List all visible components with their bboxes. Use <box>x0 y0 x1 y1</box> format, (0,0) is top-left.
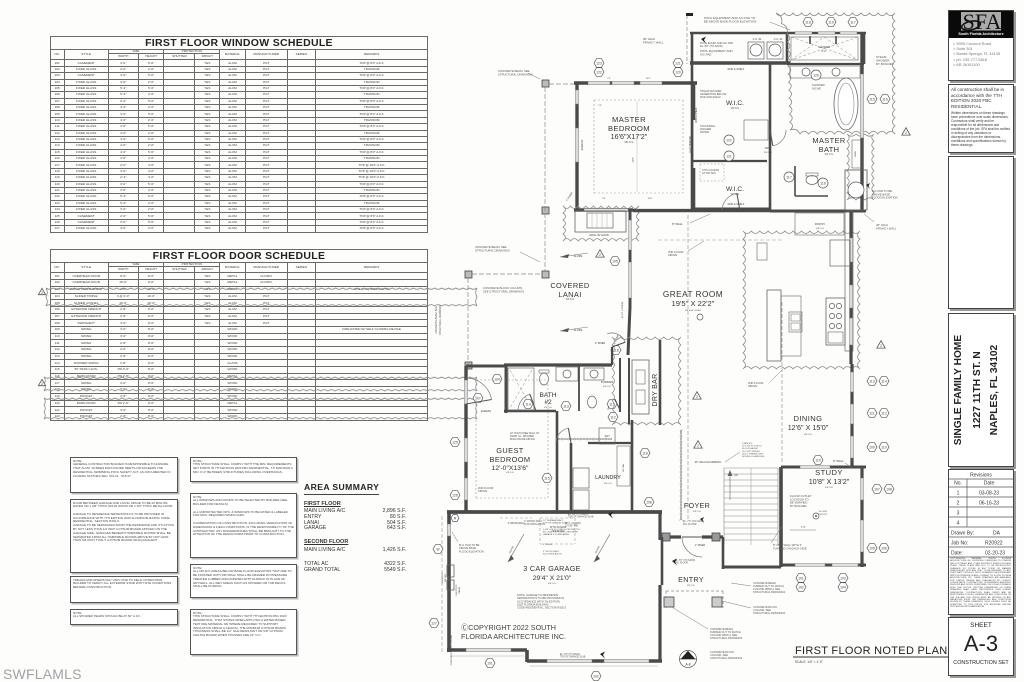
svg-text:VIF O.S.: VIF O.S. <box>764 152 773 154</box>
slope arrows <box>560 253 588 257</box>
svg-text:VIF O.S.: VIF O.S. <box>804 434 813 436</box>
svg-text:105: 105 <box>869 546 875 550</box>
svg-text:VIF O.S.: VIF O.S. <box>604 483 613 485</box>
address lines <box>949 38 1013 67</box>
study dim line <box>790 529 816 531</box>
electrical flag entry <box>672 559 677 566</box>
svg-text:COVERED: COVERED <box>550 281 589 290</box>
general notes boxes <box>70 457 178 493</box>
svg-text:FLOOD ELEVATION: FLOOD ELEVATION <box>459 549 484 553</box>
svg-text:VIF O.S.: VIF O.S. <box>506 472 515 474</box>
svg-text:STAIR KIT:: STAIR KIT: <box>742 442 753 445</box>
svg-text:108: 108 <box>646 500 652 504</box>
svg-text:121: 121 <box>726 154 732 158</box>
stair treads <box>724 467 778 469</box>
svg-text:114: 114 <box>881 379 887 383</box>
svg-text:101: 101 <box>487 661 493 665</box>
svg-text:D/4 CAB: D/4 CAB <box>622 463 625 471</box>
svg-text:Date:: Date: <box>951 551 963 557</box>
svg-text:ABOVE: ABOVE <box>748 384 757 388</box>
svg-text:10'8" X 13'2": 10'8" X 13'2" <box>809 477 850 486</box>
svg-text:12'6" X 15'0": 12'6" X 15'0" <box>788 423 829 432</box>
svg-text:ROD & SHELF: ROD & SHELF <box>728 203 745 206</box>
svg-text:3'4": 3'4" <box>602 198 606 200</box>
svg-text:7'6": 7'6" <box>607 78 611 80</box>
svg-text:DA: DA <box>993 531 1001 537</box>
svg-text:108: 108 <box>886 487 892 491</box>
svg-text:UP: UP <box>734 473 738 477</box>
stair up arrow <box>729 474 731 500</box>
revision cloud door schedule row 103 <box>46 288 477 306</box>
title block: empty seal panel <box>948 156 1014 309</box>
master bedroom south wall <box>574 208 633 211</box>
entry walls and columns <box>662 535 681 538</box>
svg-text:ELECTRIC: ELECTRIC <box>456 584 458 595</box>
svg-text:22"X36" MIN: 22"X36" MIN <box>565 526 578 528</box>
svg-text:22"X36" MIN: 22"X36" MIN <box>702 172 716 175</box>
riser door arc dry bar <box>607 333 625 342</box>
svg-text:1" RISER: 1" RISER <box>695 544 705 547</box>
svg-text:SCALE: 1/4" = 1'-0": SCALE: 1/4" = 1'-0" <box>795 660 823 664</box>
shower hex tags 118 119 117 <box>803 18 813 27</box>
svg-text:BEDROOM: BEDROOM <box>490 455 531 464</box>
revision cloud master bath right <box>776 13 895 134</box>
title block: sheet number panel <box>948 617 1014 676</box>
svg-text:PRIVACY WALL: PRIVACY WALL <box>643 40 664 44</box>
revision triangle at door schedule row 115 <box>38 379 45 385</box>
garage south step <box>525 650 529 662</box>
bath2 vanity <box>556 367 578 381</box>
svg-text:STUDY: STUDY <box>815 468 843 477</box>
svg-text:A/C PAD: A/C PAD <box>700 52 711 56</box>
entry door arc <box>682 537 702 557</box>
laundry counters <box>617 446 630 486</box>
kitchen right wall cabinets <box>845 212 853 351</box>
svg-text:110: 110 <box>881 445 887 449</box>
svg-text:122: 122 <box>596 70 602 74</box>
svg-text:7'-4": 7'-4" <box>801 526 806 529</box>
svg-text:ⒸCOPYRIGHT 2022 SOUTH: ⒸCOPYRIGHT 2022 SOUTH <box>461 623 556 632</box>
svg-text:STRUCTURAL DRAWINGS: STRUCTURAL DRAWINGS <box>475 248 510 252</box>
great room top wall <box>633 210 770 212</box>
svg-text:EGRESS: EGRESS <box>481 410 491 413</box>
entry porch dashed and columns <box>666 590 723 592</box>
first floor window schedule table <box>50 36 428 233</box>
revision triangle 2 right of cloud <box>902 128 910 135</box>
svg-text:SLOPE: SLOPE <box>508 545 515 554</box>
svg-text:FLOOR: FLOOR <box>819 511 827 513</box>
svg-text:VIF FLR. LEVEL: VIF FLR. LEVEL <box>685 310 702 312</box>
svg-text:24" PREMANUFACT.: 24" PREMANUFACT. <box>543 519 564 522</box>
dining east wall windows <box>850 364 853 466</box>
dry bar cabinet <box>632 360 649 414</box>
svg-text:VIF O.S.: VIF O.S. <box>816 228 825 230</box>
svg-text:DINING: DINING <box>794 414 823 423</box>
svg-text:2: 2 <box>41 291 43 295</box>
svg-text:102: 102 <box>593 674 599 678</box>
svg-text:2: 2 <box>696 395 698 399</box>
fridge <box>830 240 850 266</box>
svg-text:102: 102 <box>798 585 804 589</box>
pool equipment A/C condenser units <box>748 42 764 59</box>
svg-text:126: 126 <box>452 493 458 497</box>
svg-text:ROD & SHELF: ROD & SHELF <box>728 68 745 71</box>
garage west overhang dashed <box>441 516 443 652</box>
svg-text:FLOOD ELEVATION: FLOOD ELEVATION <box>872 196 898 200</box>
svg-text:VIF O.S.: VIF O.S. <box>825 154 834 156</box>
kitchen island <box>767 290 781 361</box>
lanai triangle and hex <box>596 250 604 257</box>
svg-text:R20922: R20922 <box>985 541 1003 547</box>
svg-text:118: 118 <box>805 20 811 24</box>
wic block walls <box>691 64 694 211</box>
powder room <box>578 365 580 411</box>
svg-text:125: 125 <box>452 440 458 444</box>
garage west wall <box>447 512 451 652</box>
svg-text:FIN. FLOOR: FIN. FLOOR <box>683 523 697 526</box>
SFA logo mark <box>949 11 1013 37</box>
svg-text:NOSING & LANDINGS: NOSING & LANDINGS <box>742 455 765 458</box>
svg-text:6'-2": 6'-2" <box>821 49 826 53</box>
svg-text:FIN. FLOOR: FIN. FLOOR <box>675 563 688 565</box>
kitchen 42bd cabinet <box>757 243 767 260</box>
svg-text:06-16-23: 06-16-23 <box>979 501 999 507</box>
svg-text:123: 123 <box>596 61 602 65</box>
svg-text:2: 2 <box>41 382 43 386</box>
svg-text:113: 113 <box>869 379 875 383</box>
svg-text:TOP OF GARAGE SLAB: TOP OF GARAGE SLAB <box>560 656 586 659</box>
svg-text:BY BUILDER: BY BUILDER <box>790 504 807 508</box>
svg-text:4" WOOD WALL: 4" WOOD WALL <box>508 522 526 525</box>
guest bedroom north wall <box>466 365 506 368</box>
svg-text:EL. 6'7" (TO NAVD): EL. 6'7" (TO NAVD) <box>675 559 695 562</box>
master bath tub <box>834 78 858 130</box>
svg-text:116: 116 <box>820 181 826 185</box>
svg-text:112: 112 <box>881 411 887 415</box>
svg-text:2: 2 <box>697 444 699 448</box>
svg-text:LINEN: LINEN <box>855 150 857 157</box>
svg-text:Drawn By:: Drawn By: <box>951 531 974 537</box>
svg-text:3 CAR GARAGE: 3 CAR GARAGE <box>523 564 581 573</box>
toilet room walls and toilet <box>794 166 796 196</box>
svg-text:121: 121 <box>675 61 681 65</box>
svg-text:SLOPE: SLOPE <box>574 328 583 332</box>
hex tags study <box>796 574 806 583</box>
svg-text:SLOPE: SLOPE <box>574 254 583 258</box>
master bath vanity wall and counter <box>787 63 864 65</box>
svg-text:FLORIDA ARCHITECTURE INC.: FLORIDA ARCHITECTURE INC. <box>461 632 566 641</box>
outdoor shower interior <box>791 37 858 60</box>
svg-text:GRILL W/ HOOD: GRILL W/ HOOD <box>589 233 609 237</box>
svg-text:GUEST: GUEST <box>496 446 524 455</box>
svg-text:ENCLOSURE ABOVE: ENCLOSURE ABOVE <box>510 438 535 441</box>
attic access note <box>700 163 724 165</box>
title block: FBC note panel <box>948 84 1014 153</box>
bath2 toilet <box>540 373 549 385</box>
bath hex tags <box>492 375 502 384</box>
hall door arc <box>556 428 568 443</box>
garage door openings <box>547 659 592 662</box>
svg-text:GREAT ROOM: GREAT ROOM <box>663 290 723 299</box>
garage east wall <box>658 512 661 540</box>
master bath south wall <box>770 210 866 213</box>
svg-text:4" RISER: 4" RISER <box>595 342 605 345</box>
svg-text:PRIVACY WALL: PRIVACY WALL <box>876 226 897 230</box>
svg-text:2: 2 <box>905 131 907 135</box>
svg-text:ENTRY: ENTRY <box>678 575 704 584</box>
pantry <box>795 213 844 235</box>
svg-text:119: 119 <box>828 20 834 24</box>
svg-text:16'6"X17'2": 16'6"X17'2" <box>611 132 648 141</box>
svg-text:2: 2 <box>599 253 601 257</box>
study walls <box>779 467 783 567</box>
hex tags 123 122 above bedroom <box>594 59 604 68</box>
svg-text:FOYER: FOYER <box>684 501 710 510</box>
foyer cloud edge <box>680 430 682 520</box>
svg-text:106: 106 <box>881 546 887 550</box>
svg-text:W/H: W/H <box>605 435 610 438</box>
revision cloud door schedule rows 115-117 <box>44 377 477 391</box>
electric meter panel <box>447 565 454 577</box>
svg-text:MASTER: MASTER <box>812 136 845 145</box>
svg-text:120: 120 <box>675 70 681 74</box>
master bedroom north wall with windows <box>574 81 697 84</box>
svg-text:STRUCTURAL DRAWINGS: STRUCTURAL DRAWINGS <box>439 305 442 335</box>
svg-text:No.: No. <box>954 481 962 487</box>
guest bedroom west wall windows <box>464 366 467 512</box>
revision cloud ac pad lobe <box>847 134 874 200</box>
svg-text:R-19 INSULATION: R-19 INSULATION <box>543 553 562 556</box>
svg-text:113: 113 <box>563 404 569 408</box>
svg-text:NICHE: NICHE <box>812 86 821 90</box>
electrical flag pool room <box>701 37 706 44</box>
svg-text:C.U. #1: C.U. #1 <box>753 37 762 41</box>
linen cabinet <box>852 140 862 168</box>
wavy line laundry top <box>556 438 612 440</box>
svg-text:FURRING ON EACH SIDE: FURRING ON EACH SIDE <box>773 546 807 550</box>
svg-text:7'6": 7'6" <box>598 105 602 107</box>
bath interior doors arcs <box>773 130 786 146</box>
svg-text:SHOWER: SHOWER <box>818 45 830 49</box>
svg-text:PANEL: PANEL <box>458 586 461 594</box>
svg-text:ABOVE: ABOVE <box>668 253 677 257</box>
svg-text:109: 109 <box>869 445 875 449</box>
svg-text:LAUNDRY: LAUNDRY <box>595 475 621 481</box>
svg-text:103: 103 <box>840 576 846 580</box>
shower wall stubs <box>809 36 811 44</box>
garage south wall left <box>447 648 527 652</box>
laundry hexes <box>542 474 552 483</box>
svg-text:LANAI: LANAI <box>558 290 581 299</box>
svg-text:STRUCTURAL DRAWINGS: STRUCTURAL DRAWINGS <box>753 590 786 594</box>
svg-text:OUTLET: OUTLET <box>819 514 828 516</box>
title block: SFA logo panel <box>948 10 1014 81</box>
svg-text:127: 127 <box>431 621 437 625</box>
laundry walls <box>570 443 573 512</box>
svg-text:MASTER: MASTER <box>612 115 646 124</box>
master bedroom east wall flat opening <box>693 83 696 120</box>
svg-text:W.I.C.: W.I.C. <box>726 100 744 107</box>
svg-text:VEST: VEST <box>765 146 772 150</box>
master bedroom center dim line <box>636 101 638 192</box>
svg-text:CONCRETE BEAM, SEE: CONCRETE BEAM, SEE <box>435 306 438 333</box>
svg-text:W.I.C.: W.I.C. <box>726 186 744 193</box>
svg-text:4" WOOD WALL: 4" WOOD WALL <box>543 550 560 553</box>
guest bedroom dashed ceiling <box>476 379 548 381</box>
wall note 8in study <box>813 456 823 465</box>
concrete beam dashed line left of bedroom <box>542 80 549 87</box>
dry bar cloud <box>612 337 681 425</box>
triangle tags west of dining <box>877 341 885 348</box>
svg-text:112: 112 <box>610 415 616 419</box>
svg-text:VIF O.S.: VIF O.S. <box>624 141 634 144</box>
svg-text:29'4" X 21'0": 29'4" X 21'0" <box>533 575 572 582</box>
svg-text:12'-0"X13'6": 12'-0"X13'6" <box>492 465 529 472</box>
svg-text:111: 111 <box>869 411 874 415</box>
second floor dashed outline great room <box>687 215 689 520</box>
ac pad right <box>845 170 867 210</box>
svg-text:36" HIGH GUARDRAIL: 36" HIGH GUARDRAIL <box>695 460 722 464</box>
slope arrows garage <box>508 534 524 562</box>
master bath east wall <box>860 33 863 212</box>
svg-text:VIF O.S.: VIF O.S. <box>825 487 834 489</box>
svg-text:4" RISER: 4" RISER <box>543 544 553 546</box>
svg-text:17'2": 17'2" <box>632 157 635 162</box>
svg-text:TOP OF GARAGE SLAB: TOP OF GARAGE SLAB <box>543 522 568 525</box>
svg-text:124: 124 <box>494 377 500 381</box>
revision cloud door schedule rows 119-121 <box>44 398 477 419</box>
laundry appliances <box>573 468 589 488</box>
garage attic dashed <box>540 517 575 519</box>
svg-text:POWDER: POWDER <box>601 380 614 384</box>
svg-text:2: 2 <box>880 344 882 348</box>
svg-text:VIF O.S.: VIF O.S. <box>687 585 696 587</box>
svg-text:3: 3 <box>957 511 960 517</box>
master bedroom west wall with windows <box>575 83 578 211</box>
dry bar wall <box>611 347 613 365</box>
outdoor shower walls <box>787 32 866 35</box>
revision triangle at door schedule row 103 <box>38 288 45 294</box>
svg-text:19'5" X 22'2": 19'5" X 22'2" <box>672 299 715 308</box>
svg-text:117: 117 <box>786 175 792 179</box>
svg-text:ABOVE: ABOVE <box>478 489 487 493</box>
title block: revisions table <box>948 469 1014 615</box>
svg-text:EGRESS: EGRESS <box>580 139 584 150</box>
svg-text:02-20-23: 02-20-23 <box>985 551 1005 557</box>
title block: project name panel (vertical text) <box>948 313 1014 467</box>
svg-text:BY BUILDER: BY BUILDER <box>876 62 895 66</box>
svg-text:VIF O.S.: VIF O.S. <box>731 108 740 110</box>
area summary block <box>304 477 406 574</box>
svg-text:GARAGE & LIVING AREA: GARAGE & LIVING AREA <box>543 533 569 536</box>
bath2 shower <box>508 368 534 410</box>
driveway edge lines below garage <box>450 655 524 657</box>
svg-text:METER: METER <box>445 574 447 582</box>
outdoor shower top wall windows <box>795 32 812 34</box>
svg-text:8" WALL: 8" WALL <box>672 222 683 226</box>
svg-text:101: 101 <box>798 576 804 580</box>
svg-text:115: 115 <box>544 476 550 480</box>
svg-text:13'4": 13'4" <box>646 78 651 80</box>
svg-text:105: 105 <box>612 259 618 263</box>
svg-text:4" RISER: 4" RISER <box>565 191 573 201</box>
svg-text:SEE STRUCTURAL DRAWINGS: SEE STRUCTURAL DRAWINGS <box>483 289 524 293</box>
svg-text:104: 104 <box>840 585 846 589</box>
svg-text:13'4": 13'4" <box>648 198 653 200</box>
svg-text:2: 2 <box>957 501 960 507</box>
svg-text:Date: Date <box>984 481 995 487</box>
svg-text:SLOPE: SLOPE <box>594 545 601 554</box>
svg-text:(2) 11" TREADS W/57: (2) 11" TREADS W/57 <box>742 452 764 455</box>
svg-text:TOP OF GARAGE SLAB: TOP OF GARAGE SLAB <box>568 516 594 519</box>
hex tags 115 116 right <box>867 95 877 104</box>
svg-text:03-08-23: 03-08-23 <box>979 491 999 497</box>
svg-text:VIF O.S.: VIF O.S. <box>548 583 557 585</box>
svg-text:Revisions: Revisions <box>970 473 992 479</box>
svg-text:ROD & SHELF: ROD & SHELF <box>696 107 698 123</box>
svg-text:116: 116 <box>882 97 888 101</box>
svg-text:STRUCTURAL DRAWINGS: STRUCTURAL DRAWINGS <box>710 636 743 640</box>
svg-text:107: 107 <box>874 487 880 491</box>
garage north wall <box>447 510 662 514</box>
svg-text:PANTRY: PANTRY <box>815 222 826 226</box>
svg-text:DRYER: DRYER <box>700 130 709 134</box>
entry east wall stub <box>722 537 725 569</box>
stair bottom wall <box>723 566 781 569</box>
svg-text:KITC. ACCESS: KITC. ACCESS <box>565 522 581 525</box>
svg-text:126: 126 <box>813 73 819 77</box>
outdoor kitchen cloud and grill <box>563 206 639 241</box>
bath2 south wall <box>504 410 556 413</box>
svg-text:8" WALL: 8" WALL <box>833 459 844 463</box>
kitchen range counter <box>826 298 845 345</box>
first floor door schedule table <box>50 249 428 421</box>
hex tags dining east <box>867 377 877 386</box>
svg-text:4: 4 <box>957 521 960 527</box>
svg-text:FIRST FLOOR NOTED PLAN: FIRST FLOOR NOTED PLAN <box>795 645 947 657</box>
svg-text:119: 119 <box>815 458 821 462</box>
svg-text:114: 114 <box>525 402 531 406</box>
section marker a-8 <box>680 651 697 668</box>
watermark SWFLAMLS <box>3 666 82 682</box>
svg-text:EL. 6'8" (TO NAVD): EL. 6'8" (TO NAVD) <box>568 513 588 516</box>
guest bedroom east wall <box>556 411 559 512</box>
bath2 north wall <box>504 363 612 366</box>
svg-text:VIF O.S.: VIF O.S. <box>603 386 612 388</box>
svg-text:R-19 INSULATION: R-19 INSULATION <box>524 523 545 526</box>
lanai west beam line <box>465 271 472 278</box>
svg-text:DRY BAR: DRY BAR <box>652 374 659 407</box>
svg-text:ROD AND SHELF: ROD AND SHELF <box>700 95 721 99</box>
garage hex tags <box>433 545 443 554</box>
kitchen revision cloud <box>743 231 860 369</box>
master bedroom dashed ceiling rectangle <box>594 99 683 101</box>
svg-text:EL. 6'0" (TO NAVD): EL. 6'0" (TO NAVD) <box>560 653 580 656</box>
guest entry door arc <box>518 394 530 411</box>
svg-text:117: 117 <box>850 20 856 24</box>
svg-text:VIF O.S.: VIF O.S. <box>693 511 702 513</box>
svg-text:CODE-RESIDENTIAL, SECTION R302: CODE-RESIDENTIAL, SECTION R302.5 <box>517 606 567 610</box>
guest egress door arc <box>466 378 492 400</box>
svg-text:BATH: BATH <box>819 145 840 154</box>
svg-text:STRUCTURAL DRAWINGS: STRUCTURAL DRAWINGS <box>498 72 533 76</box>
svg-text:EL. 8'0" (TO NAVD): EL. 8'0" (TO NAVD) <box>700 44 723 48</box>
svg-text:SL 24" (TYP/BD): SL 24" (TYP/BD) <box>622 302 624 319</box>
lanai east wall upper <box>629 209 632 307</box>
svg-text:Job No:: Job No: <box>951 541 968 547</box>
great room ceiling dashed line <box>658 239 782 241</box>
svg-text:BE ABOVE BASE FLOOD ELEVATION: BE ABOVE BASE FLOOD ELEVATION <box>704 20 756 24</box>
